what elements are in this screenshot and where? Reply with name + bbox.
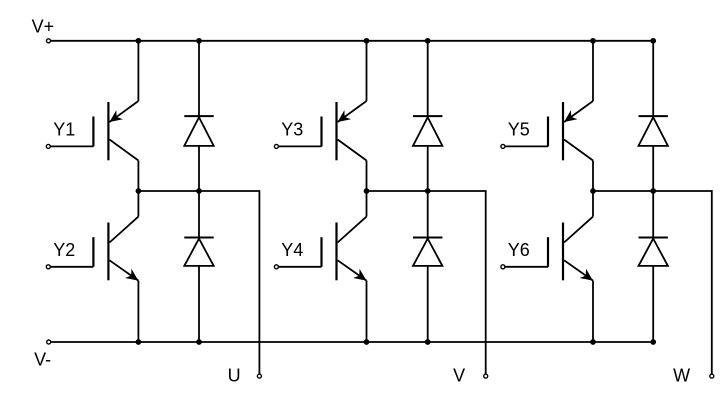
wire V+ to diode D1 cathode	[198, 41, 200, 116]
wire node W to diode D6 cathode	[652, 191, 654, 238]
svg-text:Y5: Y5	[508, 119, 530, 139]
svg-text:Y4: Y4	[281, 240, 303, 260]
diode D1 (upper freewheel)	[184, 116, 213, 146]
junction V- / D4 anode	[425, 339, 431, 345]
junction V+ / Y5 collector	[590, 38, 596, 44]
wire node V mid rail	[367, 191, 486, 374]
svg-text:Y1: Y1	[53, 119, 75, 139]
terminal V	[484, 374, 488, 378]
diode D5 (upper freewheel)	[639, 116, 668, 146]
wire W phase V+ to Y5 collector	[592, 41, 594, 101]
junction node V / Y3 emitter	[364, 188, 370, 194]
wire Y3 gate lead	[278, 145, 321, 147]
wire Y2 emitter to V-	[137, 281, 139, 342]
svg-text:Y6: Y6	[508, 240, 530, 260]
junction V+ / D3 cathode	[425, 38, 431, 44]
wire D3 anode to node V	[427, 146, 429, 191]
terminal V+	[47, 39, 51, 43]
terminal Y1 gate	[46, 144, 50, 148]
wire V+ to diode D5 cathode	[652, 41, 654, 116]
wire D6 anode to V-	[652, 266, 654, 342]
junction V- / Y6 emitter	[590, 339, 596, 345]
wire Y5 gate lead	[505, 145, 548, 147]
wire Y4 emitter to V-	[366, 281, 368, 342]
transistor Y6 (lower IGBT)	[548, 217, 593, 281]
junction node V / D3 anode	[425, 188, 431, 194]
wire Y2 gate lead	[50, 266, 93, 268]
terminal U	[257, 374, 261, 378]
wire Y3 emitter to node V	[366, 161, 368, 192]
svg-text:V+: V+	[32, 17, 55, 37]
wire node V to diode D4 cathode	[427, 191, 429, 238]
transistor Y4 (lower IGBT)	[322, 217, 367, 281]
terminal Y3 gate	[274, 144, 278, 148]
junction V+ / D1 cathode	[196, 38, 202, 44]
junction node U / D1 anode	[196, 188, 202, 194]
junction node W / D5 anode	[650, 188, 656, 194]
wire Y4 gate lead	[278, 266, 321, 268]
wire node V to Y4 collector	[366, 191, 368, 217]
junction V+ / Y3 collector	[364, 38, 370, 44]
junction node W / Y5 emitter	[590, 188, 596, 194]
wire Y6 gate lead	[505, 266, 548, 268]
terminal W	[710, 374, 714, 378]
junction V- / Y4 emitter	[364, 339, 370, 345]
wire D5 anode to node W	[652, 146, 654, 191]
wire node U to Y2 collector	[137, 191, 139, 217]
diode D4 (lower freewheel)	[413, 238, 442, 266]
transistor Y3 (upper IGBT)	[322, 101, 367, 161]
junction V+ / D5 cathode	[650, 38, 656, 44]
wire V+ to diode D3 cathode	[427, 41, 429, 116]
transistor Y1 (upper IGBT)	[93, 101, 138, 161]
svg-text:Y2: Y2	[53, 240, 75, 260]
terminal Y5 gate	[501, 144, 505, 148]
terminal Y6 gate	[501, 265, 505, 269]
wire U phase V+ to Y1 collector	[137, 41, 139, 101]
junction V- / Y2 emitter	[136, 339, 142, 345]
junction V- / D6 anode	[650, 339, 656, 345]
terminal V-	[47, 340, 51, 344]
svg-text:W: W	[673, 366, 690, 386]
wire node U mid rail	[138, 191, 259, 374]
diode D6 (lower freewheel)	[639, 238, 668, 266]
transistor Y2 (lower IGBT)	[93, 217, 138, 281]
wire D1 anode to node U	[198, 146, 200, 191]
wire node W to Y6 collector	[592, 191, 594, 217]
terminal Y4 gate	[274, 265, 278, 269]
junction node U / Y1 emitter	[136, 188, 142, 194]
svg-text:V: V	[453, 365, 465, 385]
wire D4 anode to V-	[427, 266, 429, 342]
wire node W mid rail	[593, 191, 712, 374]
transistor Y5 (upper IGBT)	[548, 101, 593, 161]
wire Y1 gate lead	[50, 145, 93, 147]
svg-text:U: U	[228, 365, 241, 385]
wire V+ rail	[51, 40, 653, 42]
wire D2 anode to V-	[198, 266, 200, 342]
junction V- / D2 anode	[196, 339, 202, 345]
junction V+ / Y1 collector	[136, 38, 142, 44]
terminal Y2 gate	[46, 265, 50, 269]
wire V- rail	[51, 341, 653, 343]
svg-text:Y3: Y3	[281, 119, 303, 139]
diode D3 (upper freewheel)	[413, 116, 442, 146]
wire V phase V+ to Y3 collector	[366, 41, 368, 101]
wire Y1 emitter to node U	[137, 161, 139, 192]
wire Y5 emitter to node W	[592, 161, 594, 192]
svg-text:V-: V-	[34, 350, 51, 370]
diode D2 (lower freewheel)	[184, 238, 213, 266]
wire node U to diode D2 cathode	[198, 191, 200, 238]
wire Y6 emitter to V-	[592, 281, 594, 342]
